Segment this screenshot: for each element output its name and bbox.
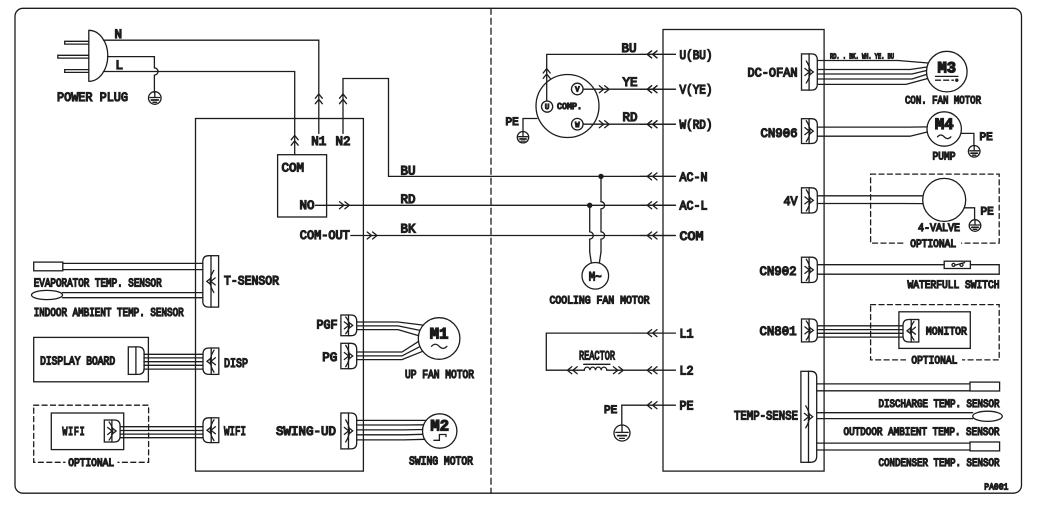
terminal U — [542, 101, 553, 112]
terminal COM — [640, 235, 675, 237]
reactor — [546, 369, 584, 371]
svg-text:UP FAN MOTOR: UP FAN MOTOR — [405, 369, 474, 382]
svg-text:BU: BU — [622, 42, 637, 56]
wires outdoor ambient temp sensor — [817, 412, 973, 414]
svg-text:REACTOR: REACTOR — [579, 350, 615, 364]
svg-text:OPTIONAL: OPTIONAL — [68, 458, 114, 470]
svg-text:CN906: CN906 — [761, 127, 798, 141]
svg-text:M4: M4 — [935, 116, 954, 134]
svg-text:COM-OUT: COM-OUT — [300, 229, 350, 243]
svg-text:AC-L: AC-L — [680, 200, 708, 214]
motor M2 — [423, 414, 457, 448]
svg-text:WIFI: WIFI — [62, 426, 85, 439]
wires display board to DISP — [144, 353, 203, 355]
terminal V — [572, 83, 584, 95]
svg-text:POWER PLUG: POWER PLUG — [57, 90, 128, 105]
condenser temp sensor probe — [970, 442, 1000, 451]
svg-text:DISCHARGE TEMP. SENSOR: DISCHARGE TEMP. SENSOR — [879, 399, 1000, 411]
svg-text:BU: BU — [401, 164, 416, 178]
compressor COMP — [536, 75, 599, 138]
svg-text:OPTIONAL: OPTIONAL — [910, 239, 956, 251]
wire W (RD) to W(RD) — [583, 123, 675, 125]
svg-text:SWING-UD: SWING-UD — [276, 425, 336, 439]
svg-text:BK: BK — [401, 222, 417, 236]
wire NO (RD) to AC-L — [316, 204, 676, 206]
svg-text:TEMP-SENSE: TEMP-SENSE — [734, 410, 798, 424]
wire AC-N branch to fan motor — [600, 176, 602, 201]
svg-text:EVAPORATOR TEMP. SENSOR: EVAPORATOR TEMP. SENSOR — [34, 277, 162, 290]
svg-text:W(RD): W(RD) — [680, 119, 713, 133]
optional box (monitor) — [871, 305, 1000, 360]
svg-text:PE: PE — [981, 206, 995, 218]
wire L1 to reactor — [546, 333, 640, 370]
wires wifi to board — [120, 426, 203, 428]
svg-text:AC-N: AC-N — [680, 171, 708, 185]
svg-text:N: N — [115, 28, 123, 42]
svg-text:MONITOR: MONITOR — [926, 327, 967, 339]
motor M3 (DC) — [927, 51, 968, 92]
wire BU to AC-N — [389, 175, 676, 177]
terminal AC-N — [640, 175, 675, 177]
svg-text:WIFI: WIFI — [224, 425, 246, 439]
discharge temp sensor probe — [970, 382, 1000, 391]
optional box (wifi) — [34, 405, 149, 462]
wire COM-OUT (BK) to COM — [351, 235, 676, 237]
wire M4 to PE — [961, 133, 974, 145]
outdoor board — [663, 30, 824, 472]
svg-text:T-SENSOR: T-SENSOR — [224, 275, 279, 289]
ground (outdoor PE) — [614, 425, 630, 441]
svg-text:RD. . BK. WH. YE. BU: RD. . BK. WH. YE. BU — [830, 54, 894, 62]
svg-text:YE: YE — [623, 76, 638, 90]
wires DC-OFAN to M3 — [817, 61, 928, 64]
outdoor ambient temp sensor probe — [973, 411, 1003, 421]
wire N (plug to N1) — [104, 40, 319, 133]
ground (power plug) — [149, 92, 162, 105]
wires CN906 to M4 — [817, 126, 927, 128]
svg-text:CN801: CN801 — [760, 325, 797, 339]
power plug — [89, 30, 108, 81]
4-valve coil — [923, 178, 966, 221]
wire U (BU) to U(BU) — [547, 54, 676, 101]
connector on wifi module — [112, 420, 120, 442]
relay box COM — [278, 155, 327, 217]
wires SWING-UD to M2 — [357, 419, 426, 421]
connector on monitor — [903, 320, 911, 343]
wires CN801 to monitor — [817, 325, 903, 327]
motor M1 — [418, 318, 460, 360]
svg-text:OUTDOOR AMBIENT TEMP. SENSOR: OUTDOOR AMBIENT TEMP. SENSOR — [844, 427, 1000, 439]
terminal W — [572, 118, 584, 130]
svg-text:V(YE): V(YE) — [680, 84, 713, 98]
svg-text:4V: 4V — [784, 195, 798, 209]
monitor box — [899, 312, 970, 349]
wires discharge temp sensor — [817, 383, 970, 385]
svg-text:L1: L1 — [680, 328, 694, 342]
wifi module box — [51, 413, 123, 450]
wires 4V to 4-valve — [817, 195, 923, 197]
svg-text:M3: M3 — [937, 60, 956, 78]
svg-text:COOLING FAN MOTOR: COOLING FAN MOTOR — [550, 295, 650, 307]
svg-text:CONDENSER TEMP. SENSOR: CONDENSER TEMP. SENSOR — [879, 458, 1000, 470]
svg-text:L2: L2 — [680, 365, 694, 379]
svg-text:RD: RD — [401, 193, 416, 207]
svg-text:WATERFULL SWITCH: WATERFULL SWITCH — [908, 280, 1000, 292]
svg-text:COM: COM — [282, 161, 305, 175]
svg-text:COM: COM — [680, 230, 704, 244]
junction on AC-L — [587, 203, 592, 208]
evaporator temp sensor probe — [34, 262, 63, 271]
svg-text:PGF: PGF — [317, 319, 338, 333]
svg-text:PA001: PA001 — [984, 482, 1008, 493]
junction on AC-N — [598, 174, 603, 179]
svg-text:NO: NO — [300, 199, 315, 213]
optional box (4-valve) — [871, 174, 1000, 243]
svg-text:PE: PE — [604, 405, 618, 417]
ground (compressor) — [517, 132, 528, 143]
wire V (YE) to V(YE) — [583, 88, 675, 90]
ground (4-valve) — [969, 220, 981, 232]
display board — [34, 337, 149, 381]
svg-text:DISPLAY BOARD: DISPLAY BOARD — [40, 356, 115, 369]
svg-text:DISP: DISP — [224, 357, 248, 371]
wires PG to M1 — [357, 341, 419, 352]
wires CN902 to waterfull switch — [817, 264, 944, 266]
svg-text:PE: PE — [506, 117, 520, 129]
connector on display board — [136, 347, 144, 375]
svg-text:DC-OFAN: DC-OFAN — [748, 66, 798, 80]
wire PE (outdoor) — [622, 405, 640, 425]
wire N2 to BU line — [343, 79, 389, 177]
wire PE (compressor) — [523, 119, 537, 132]
svg-text:N2: N2 — [335, 135, 350, 149]
motor M4 pump — [927, 112, 961, 146]
svg-text:M~: M~ — [589, 269, 602, 284]
wires condenser temp sensor — [817, 442, 970, 444]
connector T-SENSOR — [203, 256, 211, 307]
wire AC-L branch to fan motor — [589, 205, 591, 232]
motor M~ cooling fan — [582, 263, 609, 290]
wire 4-valve to PE — [964, 208, 974, 220]
wires indoor ambient sensor — [62, 292, 202, 294]
terminal L2 — [640, 369, 675, 371]
svg-text:U: U — [545, 104, 549, 112]
svg-text:L: L — [116, 59, 124, 73]
wires evaporator sensor — [63, 262, 203, 264]
connector WIFI — [203, 418, 211, 443]
svg-text:INDOOR AMBIENT TEMP. SENSOR: INDOOR AMBIENT TEMP. SENSOR — [34, 307, 184, 320]
svg-text:N1: N1 — [311, 135, 326, 149]
svg-text:OPTIONAL: OPTIONAL — [911, 356, 957, 368]
terminal L1 — [640, 332, 675, 334]
svg-text:4-VALVE: 4-VALVE — [918, 223, 960, 235]
svg-text:M2: M2 — [430, 417, 449, 435]
ground (pump) — [968, 146, 980, 158]
indoor board — [196, 119, 364, 472]
svg-text:RD: RD — [623, 111, 638, 125]
indoor ambient temp sensor probe — [32, 290, 63, 299]
svg-text:PG: PG — [322, 351, 337, 365]
svg-text:U(BU): U(BU) — [680, 49, 713, 63]
connector DISP — [203, 348, 211, 374]
terminal V(YE) — [640, 88, 675, 90]
svg-text:SWING MOTOR: SWING MOTOR — [409, 455, 473, 468]
svg-text:CON. FAN MOTOR: CON. FAN MOTOR — [905, 95, 981, 107]
svg-text:M1: M1 — [430, 325, 449, 343]
wire L (plug to COM) — [104, 72, 295, 155]
terminal W(RD) — [640, 123, 675, 125]
waterfull switch — [944, 261, 970, 268]
terminal PE — [640, 404, 675, 406]
svg-text:PE: PE — [980, 132, 994, 144]
svg-text:PE: PE — [680, 400, 694, 414]
svg-text:COMP.: COMP. — [557, 102, 582, 112]
svg-text:PUMP: PUMP — [933, 151, 956, 163]
wire PE (plug earth) — [108, 56, 155, 58]
svg-text:CN902: CN902 — [760, 265, 797, 279]
terminal AC-L — [640, 204, 675, 206]
wires PGF to M1 — [357, 322, 424, 325]
terminal U(BU) — [640, 53, 675, 55]
